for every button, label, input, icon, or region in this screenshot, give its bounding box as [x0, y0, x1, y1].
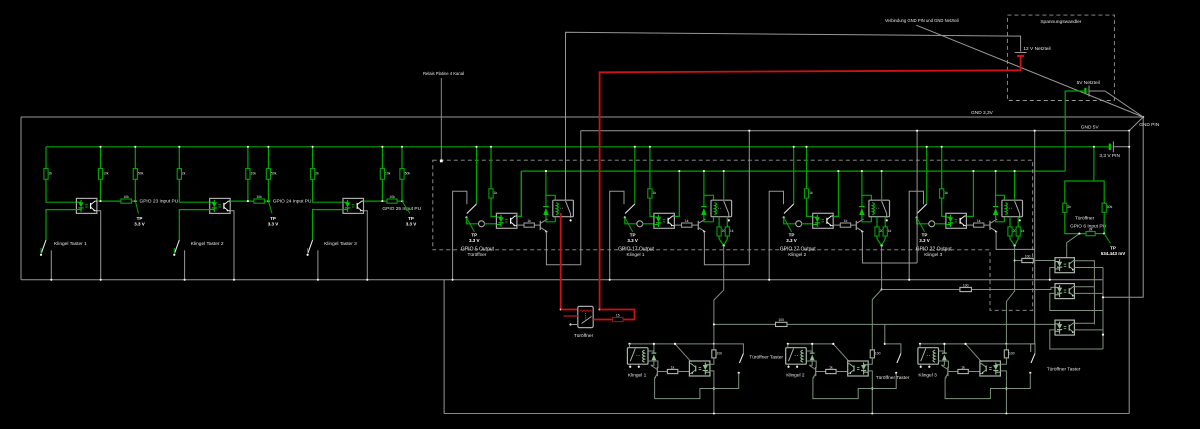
wire cathode staple sense 2	[1050, 293, 1103, 310]
svg-text:3.3 V: 3.3 V	[268, 222, 279, 227]
merge arrow ch4	[1010, 236, 1018, 246]
wire Taster 2 return	[872, 373, 896, 389]
resistor 100 sense Klingel2	[960, 287, 972, 291]
wire red to relay coil	[561, 309, 578, 311]
merge arrow ch3	[877, 236, 885, 246]
optocoupler Klingel 3	[980, 361, 1001, 376]
wire pin to connector ch4	[917, 218, 929, 224]
svg-text:2k: 2k	[1089, 227, 1093, 231]
resistor 1k LED ch1	[489, 189, 493, 198]
wire GND5V corner diagonal to GND PIN	[1129, 117, 1143, 131]
wire 3.3V drop to 1k ch2	[649, 147, 651, 189]
pin connector circle ch3	[796, 221, 802, 227]
relay Klingel 3	[918, 348, 939, 365]
relay ch2	[711, 200, 732, 218]
dashed box Spannungswandler	[1007, 15, 1114, 100]
wire 1k to opto anode ch3	[807, 198, 813, 216]
optocoupler input ch1	[76, 198, 97, 213]
svg-text:5V Netzteil: 5V Netzteil	[1077, 80, 1100, 86]
wire opto emitter to ground ch2	[230, 211, 234, 280]
relay ch3	[869, 200, 890, 218]
switch Klingel Taster 3	[308, 240, 313, 253]
svg-text:TP: TP	[137, 216, 143, 221]
svg-text:10k: 10k	[385, 171, 391, 175]
wire relay contact stubs ch2	[718, 217, 720, 227]
resistor 50k pull-up ch1	[133, 169, 137, 180]
diode flyback ch1	[545, 195, 547, 206]
svg-text:TP: TP	[789, 233, 795, 238]
wire base ch2	[692, 224, 698, 226]
wire opto collector to 5V ch2	[674, 171, 679, 216]
svg-text:Klingel 3: Klingel 3	[918, 373, 937, 379]
wire series resistor to junction ch2	[264, 200, 270, 202]
resistor 2k pull-up ch1	[44, 169, 48, 180]
wire opto cathode to switch ch3	[313, 210, 343, 240]
wire relay pivot feed ch3	[881, 171, 883, 200]
wire GPIO pin drop ch4	[926, 147, 928, 204]
svg-text:1k: 1k	[829, 365, 833, 369]
diode flyback ch3	[861, 195, 863, 206]
wire bottom GND rail	[444, 413, 1129, 415]
resistor 1k contact ch2	[725, 227, 729, 236]
wire 1k to opto anode ch4	[942, 198, 946, 216]
wire top rail Klingel 1	[630, 343, 676, 345]
net 3.3V bus	[46, 146, 1109, 148]
wire cathode staple sense 3	[1050, 330, 1103, 349]
svg-text:Klingel 2: Klingel 2	[788, 252, 806, 257]
transistor NPN ch4	[990, 219, 997, 233]
wire GPIO pin drop ch3	[793, 147, 795, 204]
wire opto collector to 5V ch1	[517, 171, 521, 216]
wire base ch3	[851, 224, 857, 226]
wire Taster 1 return	[714, 373, 739, 389]
pin connector circle ch1	[479, 221, 485, 227]
svg-text:Türöffner: Türöffner	[1075, 216, 1095, 222]
wire sense line Klingel3 to opto column	[1015, 260, 1022, 262]
wire collector sense 3	[1074, 322, 1094, 324]
wire ch2 output column to Klingel1 block	[714, 246, 724, 344]
svg-text:1k: 1k	[653, 191, 657, 195]
wire collector diag Klingel 3	[966, 344, 982, 362]
wire emitter sense 2	[1074, 292, 1103, 294]
wire 100 to opto collector Klingel 2	[868, 358, 872, 364]
wire 2k to opto anode ch2	[179, 179, 209, 202]
wire opto top pin Klingel 1	[690, 361, 692, 362]
wire 3.3V drop to 50k ch1	[134, 147, 136, 169]
dashed box Relais Platine 4 Kanal	[433, 160, 1033, 310]
optocoupler input ch3	[343, 198, 364, 213]
wire GND bracket ch1	[453, 191, 467, 279]
wire 2k to opto anode ch1	[46, 179, 76, 202]
svg-text:Verbindung GND PIN und GND Net: Verbindung GND PIN und GND Netzteil	[885, 18, 959, 23]
svg-text:100: 100	[1009, 351, 1015, 355]
resistor 100 column Klingel 3	[1005, 343, 1007, 345]
wire collector sense 2	[1074, 286, 1094, 288]
wire sense line Klingel1 to optoR3	[714, 323, 776, 325]
svg-text:50k: 50k	[271, 171, 277, 175]
wire emitter common column	[1102, 268, 1104, 350]
wire collector output ch2	[230, 200, 254, 202]
resistor 1k LED ch4	[940, 189, 944, 198]
svg-text:GPIO 25 Input PU: GPIO 25 Input PU	[382, 206, 421, 212]
optocoupler input ch2	[210, 198, 231, 213]
svg-text:15: 15	[616, 313, 620, 317]
svg-text:10k: 10k	[389, 195, 395, 199]
wire 3.3V drop to 50k ch2	[267, 147, 269, 169]
svg-text:1k: 1k	[944, 191, 948, 195]
wire opto collector to 5V ch4	[966, 171, 973, 216]
pin connector circle ch4	[929, 221, 935, 227]
wire 12V supply feed	[566, 32, 1021, 200]
wire 3.3V drop to 1k ch4	[941, 147, 943, 189]
wire 3,3V PIN negative to GND rail	[1113, 146, 1129, 148]
wire 3.3V drop to 2k ch3	[312, 147, 314, 169]
optocoupler sense 1	[1055, 258, 1074, 273]
wire sense opto collectors column	[1093, 260, 1095, 324]
wire GND bracket ch3	[769, 191, 783, 279]
wire pin to connector ch3	[784, 218, 796, 224]
test point TP 3.3V output ch2	[625, 218, 633, 232]
wire coil return ch1	[554, 217, 556, 222]
svg-text:1k: 1k	[527, 219, 531, 223]
svg-text:1k: 1k	[844, 219, 848, 223]
transistor NPN ch3	[856, 219, 863, 233]
wire connector to opto cathode ch1	[484, 223, 496, 225]
svg-text:1k: 1k	[671, 365, 675, 369]
diode flyback ch4	[995, 195, 997, 206]
wire GPIO6 jog to opto1 base	[1067, 234, 1080, 258]
wire connector to opto cathode ch2	[643, 223, 654, 225]
wire GPIO pin drop ch1	[476, 147, 478, 204]
wire opto cathode to switch ch2	[179, 210, 209, 240]
resistor 15	[613, 317, 623, 321]
resistor 1k base ch1	[517, 224, 524, 226]
svg-text:TP: TP	[1110, 245, 1116, 250]
wire 3.3V drop to 1k ch1	[490, 147, 492, 189]
test point TP 3.3V ch2	[268, 201, 272, 213]
net GND 3.3V bottom rail	[21, 279, 1102, 281]
svg-text:50k: 50k	[1107, 205, 1113, 209]
svg-text:TP: TP	[408, 216, 414, 221]
wire series resistor to junction ch1	[131, 200, 137, 202]
wire top rail extension Klingel 1	[675, 343, 714, 345]
test point TP 3.3V ch1	[135, 201, 138, 213]
wire 3.3V drop to 2k ch2	[178, 147, 180, 169]
switch GPIO pin ch2	[625, 204, 635, 214]
wire opto emitter to ground ch1	[97, 211, 101, 280]
wire 5V bus left terminus to opto1 collector	[517, 171, 521, 216]
svg-text:Türöffner Taster: Türöffner Taster	[876, 375, 910, 381]
wire coil return ch3	[870, 217, 872, 222]
svg-text:2k: 2k	[49, 171, 53, 175]
svg-text:534.443 mV: 534.443 mV	[1101, 251, 1126, 256]
wire relay COM stub	[569, 323, 571, 325]
wire coil feed Klingel 3	[939, 351, 945, 352]
wire 5V drop to coil/diode ch3	[862, 171, 872, 200]
wire switch to ground ch2	[184, 250, 186, 279]
svg-text:1k: 1k	[961, 365, 965, 369]
svg-text:2k: 2k	[182, 171, 186, 175]
optocoupler output ch2	[654, 213, 675, 228]
node GND PIN	[1142, 116, 1144, 118]
svg-text:3.3 V: 3.3 V	[627, 238, 638, 243]
wire GND5V drop ch1	[580, 131, 582, 265]
wire Taster2 hang column	[884, 324, 886, 344]
wire 12V red output	[600, 56, 1021, 309]
svg-text:3.3 V: 3.3 V	[786, 238, 797, 243]
resistor 1k contact ch3	[883, 227, 887, 236]
diode flyback Klingel 2	[811, 344, 813, 353]
diode flyback Klingel 1	[653, 344, 655, 353]
wire diode anode to collector node ch4	[996, 215, 1005, 222]
wire 10k to collector node ch1	[100, 179, 102, 201]
test point TP 3.3V ch3	[402, 201, 410, 213]
svg-text:Klingel Taster 1: Klingel Taster 1	[54, 241, 87, 247]
wire sense Klingel1 continued	[787, 323, 1055, 325]
wire ch4 output column	[1006, 246, 1014, 344]
wire collector diag Klingel 2	[833, 344, 849, 362]
wire ch4 emitter staple	[996, 232, 1035, 250]
svg-text:GND 3,3V: GND 3,3V	[971, 110, 994, 116]
resistor 10k series ch3	[387, 199, 397, 203]
svg-text:3.3 V: 3.3 V	[919, 238, 930, 243]
optocoupler sense 2	[1055, 284, 1074, 299]
resistor 1k LED ch3	[804, 189, 808, 198]
wire 1k to opto anode ch1	[491, 198, 496, 216]
battery 5V Netzteil	[1085, 86, 1089, 97]
svg-text:10k: 10k	[123, 195, 129, 199]
switch GPIO pin ch3	[784, 204, 794, 214]
wire base ch1	[534, 224, 540, 226]
test point TP 3.3V output ch1	[467, 218, 475, 232]
wire relay pivot feed ch4	[1014, 171, 1016, 200]
wire 100 to opto collector Klingel 1	[710, 358, 714, 364]
wire Taster 3 return	[1006, 373, 1030, 389]
wire diode to collector Klingel 2	[809, 360, 812, 365]
resistor 1k base Klingel 2	[826, 369, 836, 373]
relay NC contact pin ch1	[570, 219, 572, 221]
wire ch1 emitter to GND5V column	[546, 232, 580, 265]
wire relay coil stub red	[564, 315, 578, 317]
relay Klingel 1	[627, 348, 648, 365]
svg-text:12 V Netzteil: 12 V Netzteil	[1023, 46, 1050, 52]
wire GND bracket ch4	[909, 191, 923, 279]
svg-text:GPIO 24 Input PU: GPIO 24 Input PU	[273, 198, 312, 204]
resistor 100 sense Klingel3	[1022, 258, 1034, 262]
svg-text:100: 100	[778, 318, 784, 322]
relay pin dots Klingel 1	[629, 366, 631, 368]
relay NC contact pin ch2	[728, 219, 730, 221]
relay NC contact pin ch3	[886, 219, 888, 221]
svg-text:100: 100	[875, 351, 881, 355]
wire ch3 emitter staple	[862, 232, 917, 263]
svg-text:Türöffner Taster: Türöffner Taster	[1047, 367, 1081, 373]
svg-text:Relais Platine 4 Kanal: Relais Platine 4 Kanal	[423, 71, 464, 76]
wire opto emitter down Klingel 2	[868, 371, 872, 414]
wire series resistor to junction ch3	[397, 200, 404, 202]
resistor 1k base ch4	[966, 224, 973, 226]
svg-text:TP: TP	[922, 233, 928, 238]
resistor 10k pull-up ch3	[380, 169, 384, 180]
switch Tueroeffner Taster 1	[714, 344, 744, 354]
relay pin dots Klingel 3	[920, 366, 922, 368]
wire opto emitter to ground ch3	[364, 211, 368, 280]
switch Tueroeffner Taster 2	[885, 344, 901, 354]
wire 50k to junction ch1	[134, 179, 136, 201]
switch Klingel Taster 1	[41, 240, 46, 253]
wire diode to collector Klingel 1	[651, 360, 654, 365]
test point TP 3.3V output ch3	[784, 218, 792, 232]
wire collector output ch1	[97, 200, 121, 202]
resistor 1k base Klingel 1	[667, 369, 677, 373]
wire 5V drop to coil/diode ch4	[996, 171, 1005, 200]
wire 10k to collector node ch2	[247, 179, 249, 201]
svg-text:Türöffner Taster: Türöffner Taster	[749, 355, 783, 361]
resistor 50k pull-up ch2	[266, 169, 270, 180]
svg-text:10k: 10k	[256, 195, 262, 199]
wire sense line Klingel2	[882, 289, 1015, 291]
wire 5V battery negative to GND PIN	[1089, 91, 1143, 117]
wire Verbindung diagonal	[916, 25, 1143, 117]
relay Klingel 2	[786, 348, 807, 365]
wire emitter staple Klingel 2	[813, 378, 872, 399]
wire 3.3V drop to 10k ch1	[100, 147, 102, 169]
net 5V bus	[521, 170, 1065, 172]
svg-text:1k: 1k	[1021, 229, 1025, 233]
wire top rail Klingel 2	[788, 343, 834, 345]
wire 3.3V drop to 2k ch1	[45, 147, 47, 169]
resistor 100 column Klingel 2	[871, 344, 873, 350]
resistor 2k pull-up ch3	[311, 169, 315, 180]
wire sense to optoR1	[1033, 260, 1055, 262]
resistor 20 contact ch2	[717, 227, 721, 236]
resistor 1k base Klingel 3	[958, 369, 968, 373]
resistor 2k series GPIO6	[1086, 232, 1095, 236]
wire emitter sense 3	[1074, 329, 1103, 331]
resistor 10k pull-up ch1	[98, 169, 102, 180]
svg-text:3.3 V: 3.3 V	[406, 222, 417, 227]
wire base Klingel 2	[816, 371, 826, 373]
wire base Klingel 1	[657, 371, 667, 373]
svg-text:100: 100	[717, 351, 723, 355]
transistor NPN ch2	[698, 219, 705, 233]
wire 5V battery positive	[1065, 91, 1085, 171]
svg-text:50k: 50k	[138, 171, 144, 175]
wire emitter staple Klingel 3	[945, 378, 1006, 399]
svg-text:1k: 1k	[977, 219, 981, 223]
wire base Klingel 3	[948, 371, 958, 373]
wire GPIO pin drop ch2	[634, 147, 636, 204]
svg-text:3.3 V: 3.3 V	[469, 238, 480, 243]
pin connector circle ch2	[637, 221, 643, 227]
svg-text:Klingel Taster 2: Klingel Taster 2	[191, 241, 224, 247]
wire top rail extension Klingel 3	[966, 343, 1007, 345]
wire pin to connector ch1	[467, 218, 479, 224]
net GND 5V rail	[581, 130, 1129, 132]
svg-text:1k: 1k	[888, 229, 892, 233]
wire opto top pin Klingel 3	[981, 361, 983, 362]
wire 1k to opto Klingel 1	[678, 371, 690, 373]
battery 3,3 V PIN	[1110, 141, 1114, 152]
svg-text:Türöffner: Türöffner	[574, 333, 594, 339]
wire diode anode to collector node ch3	[862, 215, 872, 222]
svg-text:2k: 2k	[315, 171, 319, 175]
transistor Klingel 3	[941, 365, 948, 378]
wire relay COM to Tueroeffner relay (12V red)	[560, 213, 562, 310]
svg-text:TP: TP	[471, 233, 477, 238]
resistor 50k pull-up ch3	[400, 169, 404, 180]
wire sense line2 to optoR2	[1015, 287, 1055, 289]
svg-text:Klingel Taster 3: Klingel Taster 3	[324, 241, 357, 247]
optocoupler output ch4	[946, 213, 967, 228]
svg-text:3.3 V: 3.3 V	[134, 222, 145, 227]
resistor 20 contact ch4	[1008, 227, 1012, 236]
svg-text:100: 100	[963, 283, 969, 287]
optocoupler Klingel 2	[848, 361, 869, 376]
wire 50k to junction ch2	[267, 179, 269, 201]
resistor 10k series ch1	[121, 199, 131, 203]
wire 1k to opto Klingel 3	[968, 371, 980, 373]
resistor 1k base ch2	[674, 224, 681, 226]
resistor 2k pull-up ch2	[177, 169, 181, 180]
wire top rail Klingel 3	[920, 343, 966, 345]
test point TP 3.3V output ch4	[917, 218, 925, 232]
svg-text:Klingel 3: Klingel 3	[924, 252, 942, 257]
wire bottom-left ground riser	[443, 280, 445, 414]
resistor 20 contact ch3	[875, 227, 879, 236]
wire series to junction GPIO6	[1095, 233, 1104, 235]
wire resistor 15 to relay	[593, 319, 612, 321]
wire opto emitter down Klingel 1	[710, 371, 714, 414]
wire opto collector to 5V ch3	[833, 171, 838, 216]
wire diode to collector Klingel 3	[941, 360, 944, 365]
wire leader Relais Platine label	[440, 78, 442, 161]
wire 5V drop to coil/diode ch1	[546, 171, 555, 200]
svg-text:Klingel 1: Klingel 1	[628, 373, 647, 379]
wire opto cathode to switch ch1	[46, 210, 76, 240]
svg-text:TP: TP	[630, 233, 636, 238]
svg-text:10k: 10k	[251, 171, 257, 175]
svg-text:Klingel 2: Klingel 2	[786, 373, 805, 379]
resistor 100 column Klingel 1	[713, 343, 715, 345]
svg-text:100: 100	[1025, 254, 1031, 258]
resistor 1k base ch3	[833, 224, 840, 226]
wire collector diag Klingel 1	[675, 344, 691, 362]
resistor 50k pull-up GPIO6	[1102, 203, 1106, 212]
wire diode anode to collector node ch1	[546, 215, 555, 222]
svg-text:GND 5V: GND 5V	[1081, 125, 1100, 131]
optocoupler output ch1	[496, 213, 517, 228]
relay pin dots Klingel 2	[787, 366, 789, 368]
wire collector output ch3	[364, 200, 388, 202]
wire base ch4	[984, 224, 990, 226]
wire opto emitter down Klingel 3	[1000, 371, 1006, 414]
switch GPIO pin ch4	[917, 204, 927, 214]
test point TP 534.443 mV	[1104, 234, 1110, 244]
wire ch2 emitter staple	[704, 232, 749, 265]
wire coil feed Klingel 1	[648, 351, 654, 352]
wire emitter sense 1	[1074, 267, 1103, 269]
wire opto top pin Klingel 2	[849, 361, 851, 362]
relay NC contact pin ch4	[1019, 219, 1021, 221]
wire relay contact stubs ch3	[876, 217, 878, 227]
wire red loop through resistor 15	[600, 310, 635, 320]
diode flyback Klingel 3	[943, 344, 945, 353]
wire connector to opto cathode ch3	[801, 223, 812, 225]
wire GND5V drop ch4 to Taster3	[1031, 131, 1035, 352]
wire 10k to collector node ch3	[381, 179, 383, 201]
resistor 2k pull-up GPIO6	[1063, 203, 1067, 212]
